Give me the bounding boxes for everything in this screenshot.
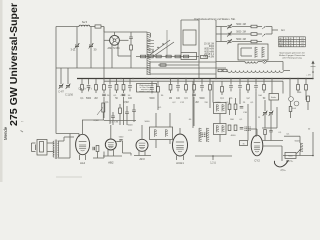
capacitor (87, 86, 91, 88)
wire (150, 33, 152, 37)
capacitor (229, 86, 233, 88)
box Entbrummer (269, 94, 279, 101)
wire (88, 79, 90, 85)
wire (209, 90, 211, 93)
tube ACH1 (173, 134, 188, 156)
box oscillator section (183, 30, 196, 45)
svg-text:0,5M: 0,5M (123, 102, 128, 104)
label (149, 98, 155, 100)
capacitor C11 (132, 110, 136, 112)
wire (272, 29, 278, 31)
potentiometer P1 (97, 103, 105, 115)
resistor R2 (130, 45, 133, 50)
label (243, 102, 246, 104)
wire (255, 104, 257, 137)
wire (232, 33, 251, 35)
wire (126, 114, 128, 126)
wire (113, 149, 115, 156)
title Mende logo (3, 126, 8, 140)
junction (185, 78, 187, 80)
resistor R9 (251, 25, 257, 28)
label (123, 102, 128, 104)
wire (215, 20, 217, 79)
wire (177, 88, 179, 91)
svg-text:0,2: 0,2 (301, 45, 303, 47)
junction (312, 78, 314, 80)
resistor R26 (96, 146, 99, 152)
wire (123, 79, 125, 85)
wire (266, 26, 272, 28)
wire (157, 95, 159, 110)
main bus + (77, 78, 313, 80)
junction (132, 78, 134, 80)
label C2 (94, 48, 97, 52)
capacitor (192, 94, 196, 96)
wire (133, 112, 135, 123)
capacitor C13 (240, 128, 244, 130)
box mains Netz (285, 152, 296, 158)
wire (170, 90, 172, 93)
IF transformer T1 (150, 127, 173, 140)
wire (123, 97, 125, 100)
trimmer capacitor C1 (75, 43, 80, 48)
label 220V (286, 160, 294, 163)
wire (290, 102, 292, 107)
socket pins 2 (244, 126, 250, 131)
wire rail AVC (56, 67, 226, 69)
wire (198, 20, 200, 79)
wire (109, 112, 111, 124)
svg-text:AB2: AB2 (108, 161, 114, 165)
junction (120, 78, 122, 80)
wire (257, 26, 262, 28)
wire (101, 26, 104, 28)
wire (299, 136, 301, 143)
wire (230, 88, 232, 91)
heater dropper loops (228, 71, 284, 73)
junction (221, 78, 223, 80)
label (229, 98, 233, 100)
wire (239, 79, 241, 85)
wire (219, 135, 221, 143)
svg-text:220 V≈: 220 V≈ (286, 160, 294, 163)
wire (93, 157, 104, 159)
wire (130, 50, 132, 68)
wire (219, 114, 221, 124)
resistor R22 (228, 104, 231, 110)
wire (270, 132, 272, 141)
wire (123, 152, 132, 154)
wire (262, 140, 283, 142)
wire rail below bus (104, 80, 283, 82)
wire rail upper (150, 61, 216, 63)
output transformer T4 (53, 140, 59, 160)
wire (282, 81, 284, 93)
junction (215, 78, 217, 80)
trimmer capacitor C2 (89, 43, 94, 48)
wire (266, 61, 283, 63)
label (204, 102, 208, 104)
wire (193, 79, 195, 85)
resistor R6 (166, 55, 171, 58)
svg-text:AL2: AL2 (80, 161, 86, 165)
wire (256, 129, 258, 135)
resistor R11 (251, 40, 257, 43)
chassis ground (274, 160, 288, 167)
resistor R5 (156, 55, 161, 58)
label (286, 134, 290, 136)
wire (284, 70, 291, 72)
junction (239, 78, 241, 80)
wire (67, 68, 69, 84)
svg-text:5000 2M: 5000 2M (236, 39, 246, 41)
label AL2 (80, 161, 86, 165)
wire (282, 62, 284, 71)
resistor R10 (251, 33, 257, 36)
wire (169, 113, 171, 127)
svg-text:5000: 5000 (295, 140, 301, 142)
svg-text:CY2: CY2 (254, 158, 260, 162)
wire (216, 26, 227, 28)
svg-text:Mende: Mende (3, 126, 8, 140)
junction (263, 78, 265, 80)
label (169, 98, 172, 100)
label (246, 98, 250, 100)
tube AF3 (136, 139, 148, 151)
wire (134, 155, 151, 157)
resistor R25 (234, 125, 237, 131)
wire (123, 100, 125, 125)
junction (177, 78, 179, 80)
label dial note (194, 18, 236, 21)
wire (119, 39, 128, 41)
box IF unit (238, 44, 268, 60)
wire (270, 115, 272, 128)
speaker LS (32, 140, 48, 156)
trimmer capacitor C4 (227, 24, 232, 29)
wire (221, 81, 223, 87)
wire (111, 45, 113, 68)
coil L7 mains choke (301, 143, 304, 152)
resistor (185, 85, 188, 91)
wire (232, 26, 251, 28)
label (263, 98, 266, 100)
wire rail y74 (150, 73, 216, 75)
junction (305, 78, 307, 80)
resistor (157, 87, 160, 93)
wire (79, 155, 81, 160)
label (145, 121, 151, 123)
capacitor (108, 86, 112, 88)
resistor R21 (119, 108, 122, 114)
IF transformer T2 (214, 103, 227, 114)
label (230, 119, 234, 121)
junction (312, 71, 314, 73)
wire (235, 110, 237, 116)
wire (176, 156, 178, 161)
wire (104, 39, 110, 41)
junction (247, 78, 249, 80)
resistor (209, 85, 212, 91)
wire (235, 98, 237, 104)
wire (183, 156, 185, 161)
capacitor electrolytic E2 (294, 101, 299, 106)
wire (117, 45, 119, 57)
tube CY2 (251, 135, 263, 156)
label (225, 102, 229, 104)
wire (305, 79, 307, 85)
wire (192, 81, 194, 128)
label (128, 95, 131, 97)
wire (155, 113, 157, 127)
label V (306, 75, 311, 77)
wire (179, 128, 181, 134)
label row 1 (236, 31, 246, 33)
label (258, 95, 262, 97)
wire (130, 153, 132, 156)
svg-text:40: 40 (290, 45, 292, 47)
wire (297, 90, 299, 93)
capacitor C3 (129, 37, 133, 39)
wire (170, 79, 172, 85)
label (180, 102, 185, 104)
wire (157, 81, 159, 87)
label row 2 (236, 39, 246, 41)
wire (201, 88, 203, 91)
svg-text:+ 4V: + 4V (306, 75, 311, 77)
wire (312, 132, 314, 156)
label (119, 137, 124, 139)
wire (90, 47, 92, 68)
resistor (193, 85, 196, 91)
label (172, 102, 176, 104)
resistor R8 (184, 55, 189, 58)
wire (149, 62, 151, 74)
svg-text:0,1 5 M: 0,1 5 M (110, 122, 118, 124)
wire (220, 27, 222, 42)
label (250, 102, 254, 104)
resistor (115, 85, 118, 91)
label (161, 95, 164, 97)
capacitor (200, 86, 204, 88)
wire (82, 120, 84, 134)
wire (60, 68, 62, 84)
wire (230, 79, 232, 85)
junction (212, 155, 214, 157)
capacitor (150, 88, 154, 90)
wire (262, 127, 277, 129)
resistor R7 (175, 55, 180, 58)
svg-text:3-11: 3-11 (71, 48, 77, 52)
wire (257, 33, 262, 35)
label (107, 95, 110, 97)
resistor R27 (264, 130, 267, 135)
wire (270, 128, 272, 131)
text block tube data (203, 44, 215, 59)
tube AB2 (105, 139, 116, 150)
wire (307, 102, 309, 111)
wire (221, 92, 223, 95)
antenna symbol (311, 61, 316, 79)
wire (193, 97, 195, 100)
wire (181, 19, 199, 21)
wire (209, 93, 211, 108)
label (189, 119, 192, 121)
label (65, 95, 74, 97)
wire (201, 79, 203, 85)
svg-text:Ant: Ant (281, 29, 285, 32)
wire (248, 128, 257, 130)
trimmer capacitor C8 (66, 84, 71, 89)
padder box (181, 53, 197, 60)
wire (216, 33, 227, 35)
wire (177, 79, 179, 85)
arrow variable 2 (262, 34, 266, 37)
resistor (247, 85, 250, 91)
wire (216, 41, 227, 43)
resistor R12 (218, 69, 222, 71)
wire (85, 155, 87, 160)
junction (169, 78, 171, 80)
wire (141, 125, 143, 139)
junction (312, 155, 314, 157)
wire (103, 152, 105, 159)
wire (95, 79, 97, 85)
wire (289, 79, 291, 97)
label AF3 (139, 157, 145, 161)
wire (82, 119, 104, 121)
arrow variable 1 (262, 26, 266, 29)
svg-text:Netz: Netz (288, 155, 293, 158)
wire (195, 155, 232, 157)
svg-text:1M: 1M (169, 98, 172, 100)
wire (119, 104, 121, 108)
wire (247, 79, 249, 85)
wire (103, 97, 105, 100)
wire (255, 88, 257, 91)
wire (241, 47, 252, 49)
wire (151, 81, 153, 87)
wire (104, 31, 131, 33)
wire (112, 112, 114, 116)
svg-text:C 11/16: C 11/16 (65, 95, 74, 97)
svg-text:5000 2M: 5000 2M (236, 24, 246, 26)
label C1 (71, 48, 77, 52)
wire (255, 91, 257, 104)
heater resistor loops small (245, 62, 258, 64)
wire (263, 90, 265, 93)
wire (169, 140, 171, 145)
capacitor electrolytic E1 (289, 97, 294, 102)
svg-text:5000: 5000 (128, 125, 134, 127)
wire (264, 100, 266, 111)
wire (129, 79, 131, 85)
text note under table (279, 52, 306, 60)
capacitor (102, 94, 106, 96)
wire (63, 137, 65, 141)
wire antenna top (56, 26, 79, 28)
resistor (169, 85, 172, 91)
junction (282, 78, 284, 80)
wire (290, 112, 292, 119)
wire (185, 79, 187, 85)
capacitor C15 (119, 140, 122, 141)
wire (110, 125, 112, 139)
svg-text:+96/+4,5M: +96/+4,5M (203, 57, 214, 59)
power switch arrow (297, 150, 301, 154)
resistor (263, 85, 266, 91)
label AM2 (108, 47, 121, 50)
wire (55, 68, 57, 134)
wire (129, 88, 131, 91)
svg-text:220 V Netzspannung: 220 V Netzspannung (282, 56, 302, 59)
wire (264, 135, 266, 141)
svg-text:ACH1: ACH1 (176, 161, 184, 165)
wire (95, 90, 97, 93)
capacitor (176, 86, 180, 88)
wire (81, 90, 83, 93)
label (58, 92, 64, 94)
junction (255, 78, 257, 80)
label (184, 98, 188, 100)
label (239, 119, 243, 121)
wire (264, 115, 266, 128)
resistor R15 (201, 56, 208, 59)
label (78, 88, 91, 91)
label (176, 98, 181, 100)
wire (299, 152, 301, 156)
mark text (21, 121, 24, 123)
label (86, 98, 92, 100)
wire (64, 136, 74, 138)
svg-text:AF3: AF3 (139, 157, 145, 161)
svg-text:5000 2M: 5000 2M (236, 31, 246, 33)
wire (130, 32, 132, 37)
resistor R20 (307, 96, 310, 102)
label (292, 108, 296, 110)
resistor (221, 87, 224, 93)
wire (255, 79, 257, 85)
resistor R24 (228, 125, 231, 131)
svg-text:6a 5: 6a 5 (82, 20, 88, 24)
wire mains bottom (283, 155, 313, 157)
mark scan line (56, 176, 82, 178)
label (220, 98, 224, 100)
wire (263, 145, 282, 147)
wire mains top (284, 135, 300, 137)
wire (112, 118, 114, 126)
label ant (281, 29, 285, 32)
coil L2 oscillator (147, 32, 151, 75)
wire (247, 90, 249, 93)
svg-text:275 GW Universal-Super: 275 GW Universal-Super (9, 3, 20, 126)
trimmer capacitor C6 (227, 39, 232, 44)
coil L4 (262, 47, 265, 58)
svg-text:5000: 5000 (216, 102, 222, 104)
wire (276, 107, 278, 128)
wire (258, 61, 262, 63)
wire (109, 88, 111, 91)
wire (212, 81, 214, 103)
resistor R28 (289, 107, 292, 112)
wire (103, 90, 105, 93)
box note (137, 84, 157, 94)
capacitor (128, 86, 132, 88)
svg-text:2M: 2M (195, 102, 198, 104)
wire (109, 91, 111, 112)
box fuse (240, 141, 248, 146)
wire (305, 90, 307, 93)
